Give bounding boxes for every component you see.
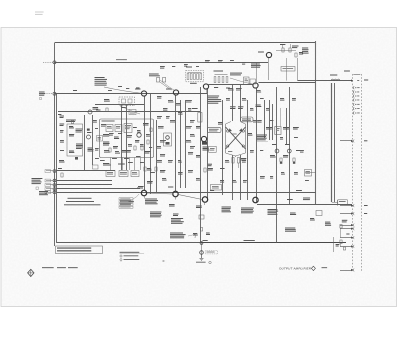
svg-text:OUTPUT AMPLIFIER: OUTPUT AMPLIFIER xyxy=(279,266,312,270)
